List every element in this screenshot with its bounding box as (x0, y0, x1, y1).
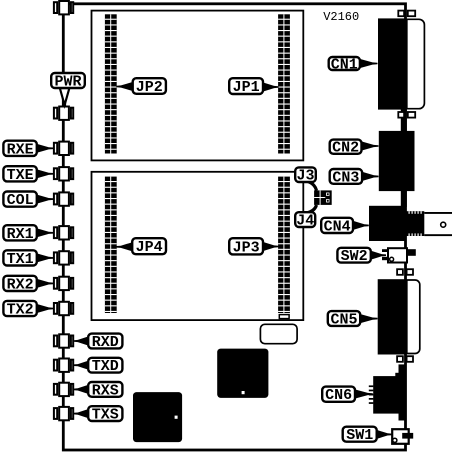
svg-text:V2160: V2160 (323, 10, 359, 24)
svg-text:CN4: CN4 (324, 218, 351, 235)
svg-text:RX1: RX1 (7, 226, 34, 243)
svg-text:SW2: SW2 (341, 248, 368, 265)
svg-text:JP2: JP2 (136, 79, 163, 96)
svg-text:TXS: TXS (92, 407, 119, 424)
svg-text:TXE: TXE (7, 167, 34, 184)
svg-text:CN6: CN6 (325, 387, 352, 404)
svg-text:RXD: RXD (92, 334, 119, 351)
svg-text:SW1: SW1 (346, 427, 373, 444)
svg-text:CN1: CN1 (331, 57, 358, 74)
svg-text:RXS: RXS (92, 382, 119, 399)
svg-text:JP1: JP1 (233, 79, 260, 96)
svg-text:CN5: CN5 (330, 312, 357, 329)
svg-text:PWR: PWR (54, 74, 81, 91)
svg-text:RXE: RXE (7, 141, 34, 158)
svg-text:TXD: TXD (92, 358, 119, 375)
svg-text:JP4: JP4 (136, 239, 163, 256)
svg-text:TX2: TX2 (7, 302, 34, 319)
svg-text:J3: J3 (296, 168, 314, 185)
svg-text:J4: J4 (296, 213, 314, 230)
svg-text:COL: COL (7, 192, 34, 209)
svg-text:TX1: TX1 (7, 251, 34, 268)
svg-text:JP3: JP3 (233, 239, 260, 256)
svg-text:CN3: CN3 (332, 169, 359, 186)
svg-text:RX2: RX2 (7, 276, 34, 293)
svg-text:CN2: CN2 (332, 140, 359, 157)
